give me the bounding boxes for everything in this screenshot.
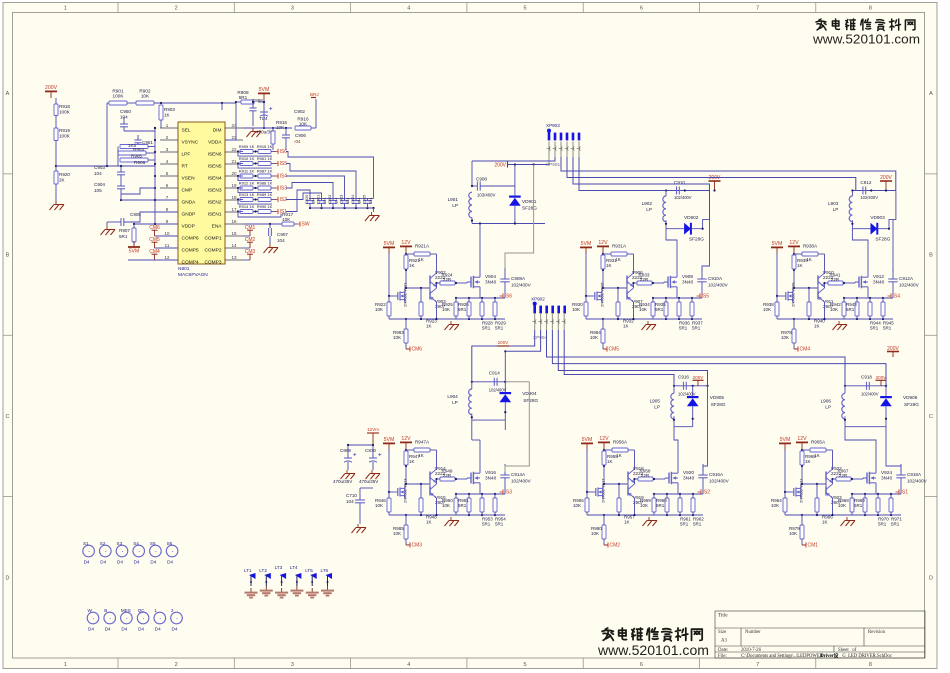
svg-text:CM6: CM6 xyxy=(412,347,423,353)
wire xyxy=(892,220,894,272)
svg-text:IS4: IS4 xyxy=(893,294,901,300)
wire xyxy=(406,253,414,255)
transistor V906 2222 xyxy=(626,276,628,285)
svg-text:GNDA: GNDA xyxy=(182,200,197,206)
svg-text:C: C xyxy=(6,414,10,420)
wire xyxy=(794,348,798,350)
wire harness xyxy=(547,330,846,386)
svg-text:C: C xyxy=(929,414,933,420)
wire xyxy=(504,464,506,475)
svg-text:10K: 10K xyxy=(789,531,797,536)
resistor R953 xyxy=(480,498,484,512)
svg-text:B: B xyxy=(929,253,933,259)
wire stub xyxy=(572,142,574,158)
svg-text:6: 6 xyxy=(640,6,643,12)
transistor V907 2907 xyxy=(626,291,628,300)
svg-text:R906: R906 xyxy=(134,160,146,165)
svg-text:C916A: C916A xyxy=(709,472,724,477)
transistor V905 xyxy=(592,295,595,297)
svg-text:5R1: 5R1 xyxy=(495,522,504,527)
svg-text:22R: 22R xyxy=(443,277,452,282)
transistor V910 2222 xyxy=(817,276,819,285)
wire rail xyxy=(845,426,886,428)
ground xyxy=(647,321,649,325)
svg-text:10K: 10K xyxy=(573,503,581,508)
svg-text:L901: L901 xyxy=(448,197,459,202)
wire xyxy=(55,116,57,129)
svg-text:102/400V: 102/400V xyxy=(861,391,879,396)
transistor V912 3N40 xyxy=(855,281,859,283)
pin 12 COMP4 xyxy=(160,259,178,261)
net SW xyxy=(299,221,301,226)
svg-text:S3: S3 xyxy=(117,541,123,546)
indicator S4 xyxy=(133,545,145,557)
svg-text:IS5: IS5 xyxy=(702,294,710,300)
svg-text:1: 1 xyxy=(64,6,67,12)
pin 9 VDDP xyxy=(160,223,178,225)
wire xyxy=(471,382,473,389)
ground xyxy=(357,524,359,528)
resistor R915 xyxy=(271,131,275,144)
svg-text:105: 105 xyxy=(94,188,102,193)
svg-text:N801: N801 xyxy=(178,266,190,272)
capacitor C922 xyxy=(329,200,337,202)
wire xyxy=(792,289,794,292)
resistor R908 xyxy=(241,100,254,104)
svg-text:D4: D4 xyxy=(138,627,144,632)
wire stub xyxy=(557,313,559,330)
wire xyxy=(666,229,677,268)
svg-text:XP901: XP901 xyxy=(546,162,560,167)
svg-text:1K: 1K xyxy=(814,453,820,458)
wire xyxy=(123,117,125,124)
wire pin15 xyxy=(243,235,250,237)
svg-text:200V: 200V xyxy=(494,163,506,169)
wire pin12 xyxy=(128,259,178,261)
svg-text:C921: C921 xyxy=(316,195,321,204)
pin 14 COMP2 xyxy=(225,247,243,249)
svg-text:10K: 10K xyxy=(375,503,383,508)
ground xyxy=(252,128,254,132)
net CM6 xyxy=(409,346,411,351)
wire xyxy=(286,152,374,199)
wire harness xyxy=(505,330,540,351)
connector XP902 xyxy=(533,302,537,306)
power flag 5VM xyxy=(133,241,135,247)
resistor R949 22R xyxy=(440,477,455,481)
svg-text:3N40: 3N40 xyxy=(683,476,695,481)
resistor R951 xyxy=(467,498,471,512)
svg-text:C904: C904 xyxy=(94,182,105,187)
svg-text:LT5: LT5 xyxy=(305,568,313,573)
wire xyxy=(429,285,431,291)
ground xyxy=(450,321,452,325)
wire xyxy=(269,224,271,228)
ground xyxy=(838,321,840,325)
resistor R934 xyxy=(651,302,655,316)
svg-text:C914A: C914A xyxy=(511,472,526,477)
svg-text:1K: 1K xyxy=(615,257,621,262)
wire xyxy=(286,193,322,200)
wire xyxy=(663,282,665,283)
svg-text:R988 1K: R988 1K xyxy=(257,181,273,186)
pin 22 ISEN6 xyxy=(225,151,243,153)
capacitor C916A xyxy=(698,474,707,476)
svg-text:D4: D4 xyxy=(150,560,156,565)
wire xyxy=(843,298,845,302)
resistor R948 1K xyxy=(419,498,423,512)
ground xyxy=(265,586,267,590)
wire xyxy=(634,498,636,515)
resistor R935 xyxy=(664,302,668,316)
resistor R913 xyxy=(240,198,253,202)
ground xyxy=(55,201,57,205)
svg-text:16: 16 xyxy=(231,219,237,224)
svg-text:D4: D4 xyxy=(121,627,127,632)
wire xyxy=(137,135,139,140)
wire loop xyxy=(238,188,272,193)
capacitor C914A xyxy=(500,474,509,476)
indicator B xyxy=(104,612,116,624)
svg-text:5VM: 5VM xyxy=(582,437,593,443)
svg-text:12V: 12V xyxy=(598,240,608,246)
wire xyxy=(801,515,803,525)
svg-text:R920: R920 xyxy=(59,172,70,177)
wire xyxy=(626,285,628,291)
svg-text:VSEN: VSEN xyxy=(182,176,196,182)
svg-text:A: A xyxy=(929,91,933,97)
pin 21 ISEN5 xyxy=(225,163,243,165)
svg-text:CM2: CM2 xyxy=(610,543,621,549)
resistor R968 xyxy=(850,498,854,512)
wire xyxy=(677,487,679,494)
wire rail xyxy=(674,426,693,428)
wire xyxy=(405,319,407,329)
svg-text:XP902: XP902 xyxy=(531,297,545,302)
wire xyxy=(286,183,333,199)
capacitor C908A xyxy=(500,278,509,280)
svg-text:5: 5 xyxy=(524,662,527,668)
wire xyxy=(121,188,155,194)
pin 20 ISEN4 xyxy=(225,175,243,177)
wire xyxy=(154,102,236,104)
svg-text:11: 11 xyxy=(165,243,170,248)
transistor V922 2222 xyxy=(825,472,827,481)
wire xyxy=(504,268,506,279)
svg-text:5R1: 5R1 xyxy=(878,522,887,527)
wire xyxy=(133,224,135,228)
svg-text:C922: C922 xyxy=(327,195,332,204)
svg-text:D4: D4 xyxy=(100,560,106,565)
transistor V903 2907 xyxy=(429,291,431,300)
svg-text:LP: LP xyxy=(825,404,831,409)
svg-text:1K: 1K xyxy=(426,324,432,329)
wire xyxy=(355,198,357,200)
net CM4 xyxy=(797,346,799,351)
capacitor C914 xyxy=(493,378,495,386)
resistor R950 xyxy=(454,498,458,512)
svg-text:www.520101.com: www.520101.com xyxy=(812,33,920,47)
wire xyxy=(586,449,588,492)
wire xyxy=(864,494,866,498)
ground xyxy=(281,588,283,592)
svg-text:D4: D4 xyxy=(84,560,90,565)
wire xyxy=(240,151,243,153)
wire xyxy=(240,163,243,165)
svg-text:R911 1K: R911 1K xyxy=(239,169,255,174)
wire xyxy=(665,298,667,302)
wire loop xyxy=(238,200,272,205)
resistor R988 xyxy=(258,186,271,190)
resistor R911 xyxy=(240,174,253,178)
wire xyxy=(221,103,223,110)
svg-text:104: 104 xyxy=(277,238,285,243)
wire xyxy=(602,253,604,288)
svg-text:Date:: Date: xyxy=(718,648,728,653)
ground xyxy=(311,588,313,592)
svg-text:LPF: LPF xyxy=(182,152,191,158)
wire cap row xyxy=(674,385,708,387)
capacitor C924 xyxy=(352,200,360,202)
svg-text:12Vm: 12Vm xyxy=(367,427,379,432)
wire xyxy=(429,481,431,487)
wire pin10 xyxy=(155,235,179,237)
wire xyxy=(845,427,876,464)
svg-text:10K: 10K xyxy=(276,125,285,130)
svg-text:VD905: VD905 xyxy=(710,395,725,400)
svg-text:V920: V920 xyxy=(683,470,694,475)
pin 4 RT xyxy=(160,163,178,165)
ground xyxy=(371,470,373,474)
svg-text:5R1: 5R1 xyxy=(680,522,689,527)
wire pin16 xyxy=(243,223,282,225)
wire xyxy=(652,298,654,302)
svg-text:A: A xyxy=(6,91,10,97)
wire xyxy=(604,544,608,546)
wire xyxy=(258,101,264,103)
svg-text:19: 19 xyxy=(231,183,237,188)
resistor R938A xyxy=(802,252,818,256)
svg-text:104: 104 xyxy=(346,499,354,504)
wire xyxy=(679,494,681,498)
svg-text:R931A: R931A xyxy=(612,244,627,249)
resistor R937 xyxy=(690,302,694,316)
svg-text:R915 1K: R915 1K xyxy=(257,144,273,149)
wire xyxy=(294,223,297,225)
svg-text:R990 1K: R990 1K xyxy=(257,204,273,209)
svg-text:102/400V: 102/400V xyxy=(674,195,692,200)
resistor R939 1K xyxy=(792,255,796,269)
wire xyxy=(240,175,243,177)
wire pin24 xyxy=(243,127,273,129)
wire loop xyxy=(238,176,272,181)
svg-text:100K: 100K xyxy=(113,94,125,99)
resistor R990 xyxy=(258,210,271,214)
svg-text:12V: 12V xyxy=(789,240,799,246)
inductor L904 xyxy=(469,389,472,415)
wire xyxy=(882,298,884,302)
wire xyxy=(851,191,853,197)
indicator QC xyxy=(137,612,149,624)
resistor R910 xyxy=(240,162,253,166)
wire xyxy=(664,478,666,479)
svg-text:V924: V924 xyxy=(881,470,892,475)
wire xyxy=(793,253,795,288)
resistor R921A xyxy=(414,252,430,256)
capacitor C910 xyxy=(676,187,678,195)
svg-text:CM1: CM1 xyxy=(808,543,819,549)
transistor V904 3N40 xyxy=(467,281,471,283)
svg-text:104: 104 xyxy=(368,197,373,204)
wire rail xyxy=(603,318,653,320)
wire xyxy=(602,485,604,488)
wire xyxy=(372,445,374,458)
wire stub xyxy=(560,142,562,158)
indicator S5 xyxy=(150,545,162,557)
svg-text:›04: ›04 xyxy=(294,139,301,144)
wire xyxy=(867,268,869,273)
svg-text:3N40: 3N40 xyxy=(485,280,497,285)
wire xyxy=(437,478,441,480)
svg-text:V908: V908 xyxy=(682,274,693,279)
svg-text:200V: 200V xyxy=(498,340,510,345)
resistor R925 xyxy=(454,302,458,316)
svg-text:5R1: 5R1 xyxy=(846,307,855,312)
wire xyxy=(106,222,108,226)
svg-text:LT2: LT2 xyxy=(259,568,267,573)
svg-text:2: 2 xyxy=(175,6,178,12)
capacitor C869 xyxy=(344,457,352,459)
pin 5 VSEN xyxy=(160,175,178,177)
svg-text:VD906: VD906 xyxy=(903,395,918,400)
svg-text:SF28G: SF28G xyxy=(522,206,537,211)
wire xyxy=(862,478,864,479)
svg-text:10K: 10K xyxy=(763,307,771,312)
wire xyxy=(851,494,853,498)
ground xyxy=(296,586,298,590)
resistor R932 1K xyxy=(616,302,620,316)
wire cap row xyxy=(845,385,886,387)
svg-text:ISEN5: ISEN5 xyxy=(208,164,222,170)
resistor R930 10K xyxy=(584,302,588,316)
wire rail xyxy=(406,318,456,320)
svg-text:BRJ: BRJ xyxy=(310,92,319,97)
transistor V911 2907 xyxy=(817,291,819,300)
pin 8 GNDP xyxy=(160,211,178,213)
net CM3 xyxy=(409,542,411,547)
svg-text:Title: Title xyxy=(718,613,728,619)
svg-text:R919: R919 xyxy=(59,128,70,133)
svg-text:R903: R903 xyxy=(164,107,175,112)
svg-text:5VM: 5VM xyxy=(129,249,140,255)
svg-text:VD901: VD901 xyxy=(522,199,537,204)
svg-text:5VM: 5VM xyxy=(780,437,791,443)
wire xyxy=(665,191,667,197)
svg-text:12V: 12V xyxy=(797,436,807,442)
wire xyxy=(634,282,638,284)
wire xyxy=(55,184,57,201)
wire xyxy=(875,464,877,469)
wire harness xyxy=(558,330,707,386)
resistor R980 10K xyxy=(602,525,606,539)
svg-text:SF28G: SF28G xyxy=(523,398,538,403)
wire xyxy=(869,298,871,302)
wire rail xyxy=(472,419,506,421)
svg-text:1K: 1K xyxy=(624,520,630,525)
resistor R907 xyxy=(132,228,136,242)
svg-text:102/400V: 102/400V xyxy=(907,479,928,484)
resistor R906 xyxy=(120,158,148,162)
ground xyxy=(450,517,452,521)
wire xyxy=(240,187,243,189)
wire xyxy=(794,287,818,289)
resistor R958 22R xyxy=(638,477,653,481)
wire pin13 xyxy=(243,259,250,261)
resistor R917 xyxy=(282,222,294,226)
net IS4 xyxy=(890,293,892,298)
svg-text:5R1: 5R1 xyxy=(656,503,665,508)
wire rail xyxy=(456,514,505,516)
wire rail xyxy=(406,514,456,516)
svg-text:C910A: C910A xyxy=(708,276,723,281)
svg-text:ISEN1: ISEN1 xyxy=(208,212,222,218)
wire xyxy=(504,351,506,382)
wire xyxy=(692,494,694,498)
svg-text:COMP2: COMP2 xyxy=(204,248,221,254)
pin 19 ISEN3 xyxy=(225,187,243,189)
svg-text:D4: D4 xyxy=(155,627,161,632)
wire xyxy=(817,285,819,291)
svg-text:LT3: LT3 xyxy=(275,565,283,570)
svg-text:ISEN3: ISEN3 xyxy=(208,188,222,194)
transistor V901 xyxy=(395,295,398,297)
svg-text:L906: L906 xyxy=(821,398,832,403)
resistor R933 22R xyxy=(637,281,652,285)
wire xyxy=(285,128,287,135)
wire xyxy=(55,98,57,104)
wire xyxy=(604,449,612,451)
svg-text:IS6: IS6 xyxy=(505,294,513,300)
capacitor C870 xyxy=(369,457,377,459)
svg-text:C918A: C918A xyxy=(907,472,922,477)
wire xyxy=(479,224,481,269)
svg-text:C916: C916 xyxy=(678,375,689,380)
wire harness xyxy=(472,157,555,161)
wire loop xyxy=(238,212,281,218)
svg-text:5R1: 5R1 xyxy=(458,503,467,508)
wire xyxy=(468,494,470,498)
svg-text:CMP: CMP xyxy=(182,188,193,194)
svg-text:1K: 1K xyxy=(409,263,415,268)
wire xyxy=(367,198,369,200)
resistor R959 xyxy=(652,498,656,512)
svg-text:R912 1K: R912 1K xyxy=(239,181,255,186)
wire xyxy=(602,319,604,329)
wire xyxy=(825,481,827,487)
wire xyxy=(800,485,802,488)
net IS1 xyxy=(898,489,900,494)
wire xyxy=(603,287,627,289)
wire xyxy=(466,282,468,283)
wire xyxy=(885,386,887,397)
svg-text:D4: D4 xyxy=(172,627,178,632)
svg-text:C906: C906 xyxy=(295,133,306,138)
svg-text:C912A: C912A xyxy=(899,276,914,281)
svg-text:1K5: 1K5 xyxy=(128,143,137,148)
resistor R943 xyxy=(855,302,859,316)
capacitor C918A xyxy=(896,474,905,476)
wire xyxy=(405,449,407,484)
